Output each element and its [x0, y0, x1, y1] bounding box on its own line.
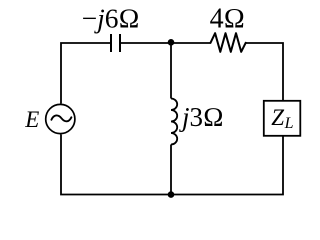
svg-text:−j6Ω: −j6Ω [82, 2, 140, 33]
capacitor -j6Ω plates [111, 34, 120, 52]
label E [24, 107, 39, 132]
wire: resistor to top-right corner, down to load box [246, 43, 283, 100]
voltage source E circle [46, 104, 75, 133]
label 4Ω [210, 4, 246, 35]
node bottom junction [168, 191, 175, 198]
wire: load box bottom to bottom-right corner [171, 136, 283, 194]
wire top-left: source top to capacitor left plate [61, 43, 110, 104]
inductor j3Ω coil (4 bumps) [171, 99, 177, 145]
label j3Ω [179, 102, 224, 132]
voltage source sine symbol [51, 115, 71, 121]
wire: inductor bottom to bottom node [170, 145, 172, 195]
svg-text:E: E [24, 107, 39, 132]
svg-text:4Ω: 4Ω [210, 4, 246, 35]
label -j6Ω [82, 2, 140, 33]
node top junction [168, 39, 175, 46]
wire: bottom node to bottom-left corner, up to source bottom [61, 135, 171, 195]
wire: middle branch top node down to inductor [170, 43, 172, 99]
load box ZL [264, 101, 301, 136]
label ZL [271, 105, 293, 132]
wire: top node to resistor [171, 42, 211, 44]
wire: capacitor right plate to top node [121, 42, 171, 44]
resistor 4Ω zigzag [211, 33, 246, 52]
svg-text:j3Ω: j3Ω [179, 102, 224, 132]
